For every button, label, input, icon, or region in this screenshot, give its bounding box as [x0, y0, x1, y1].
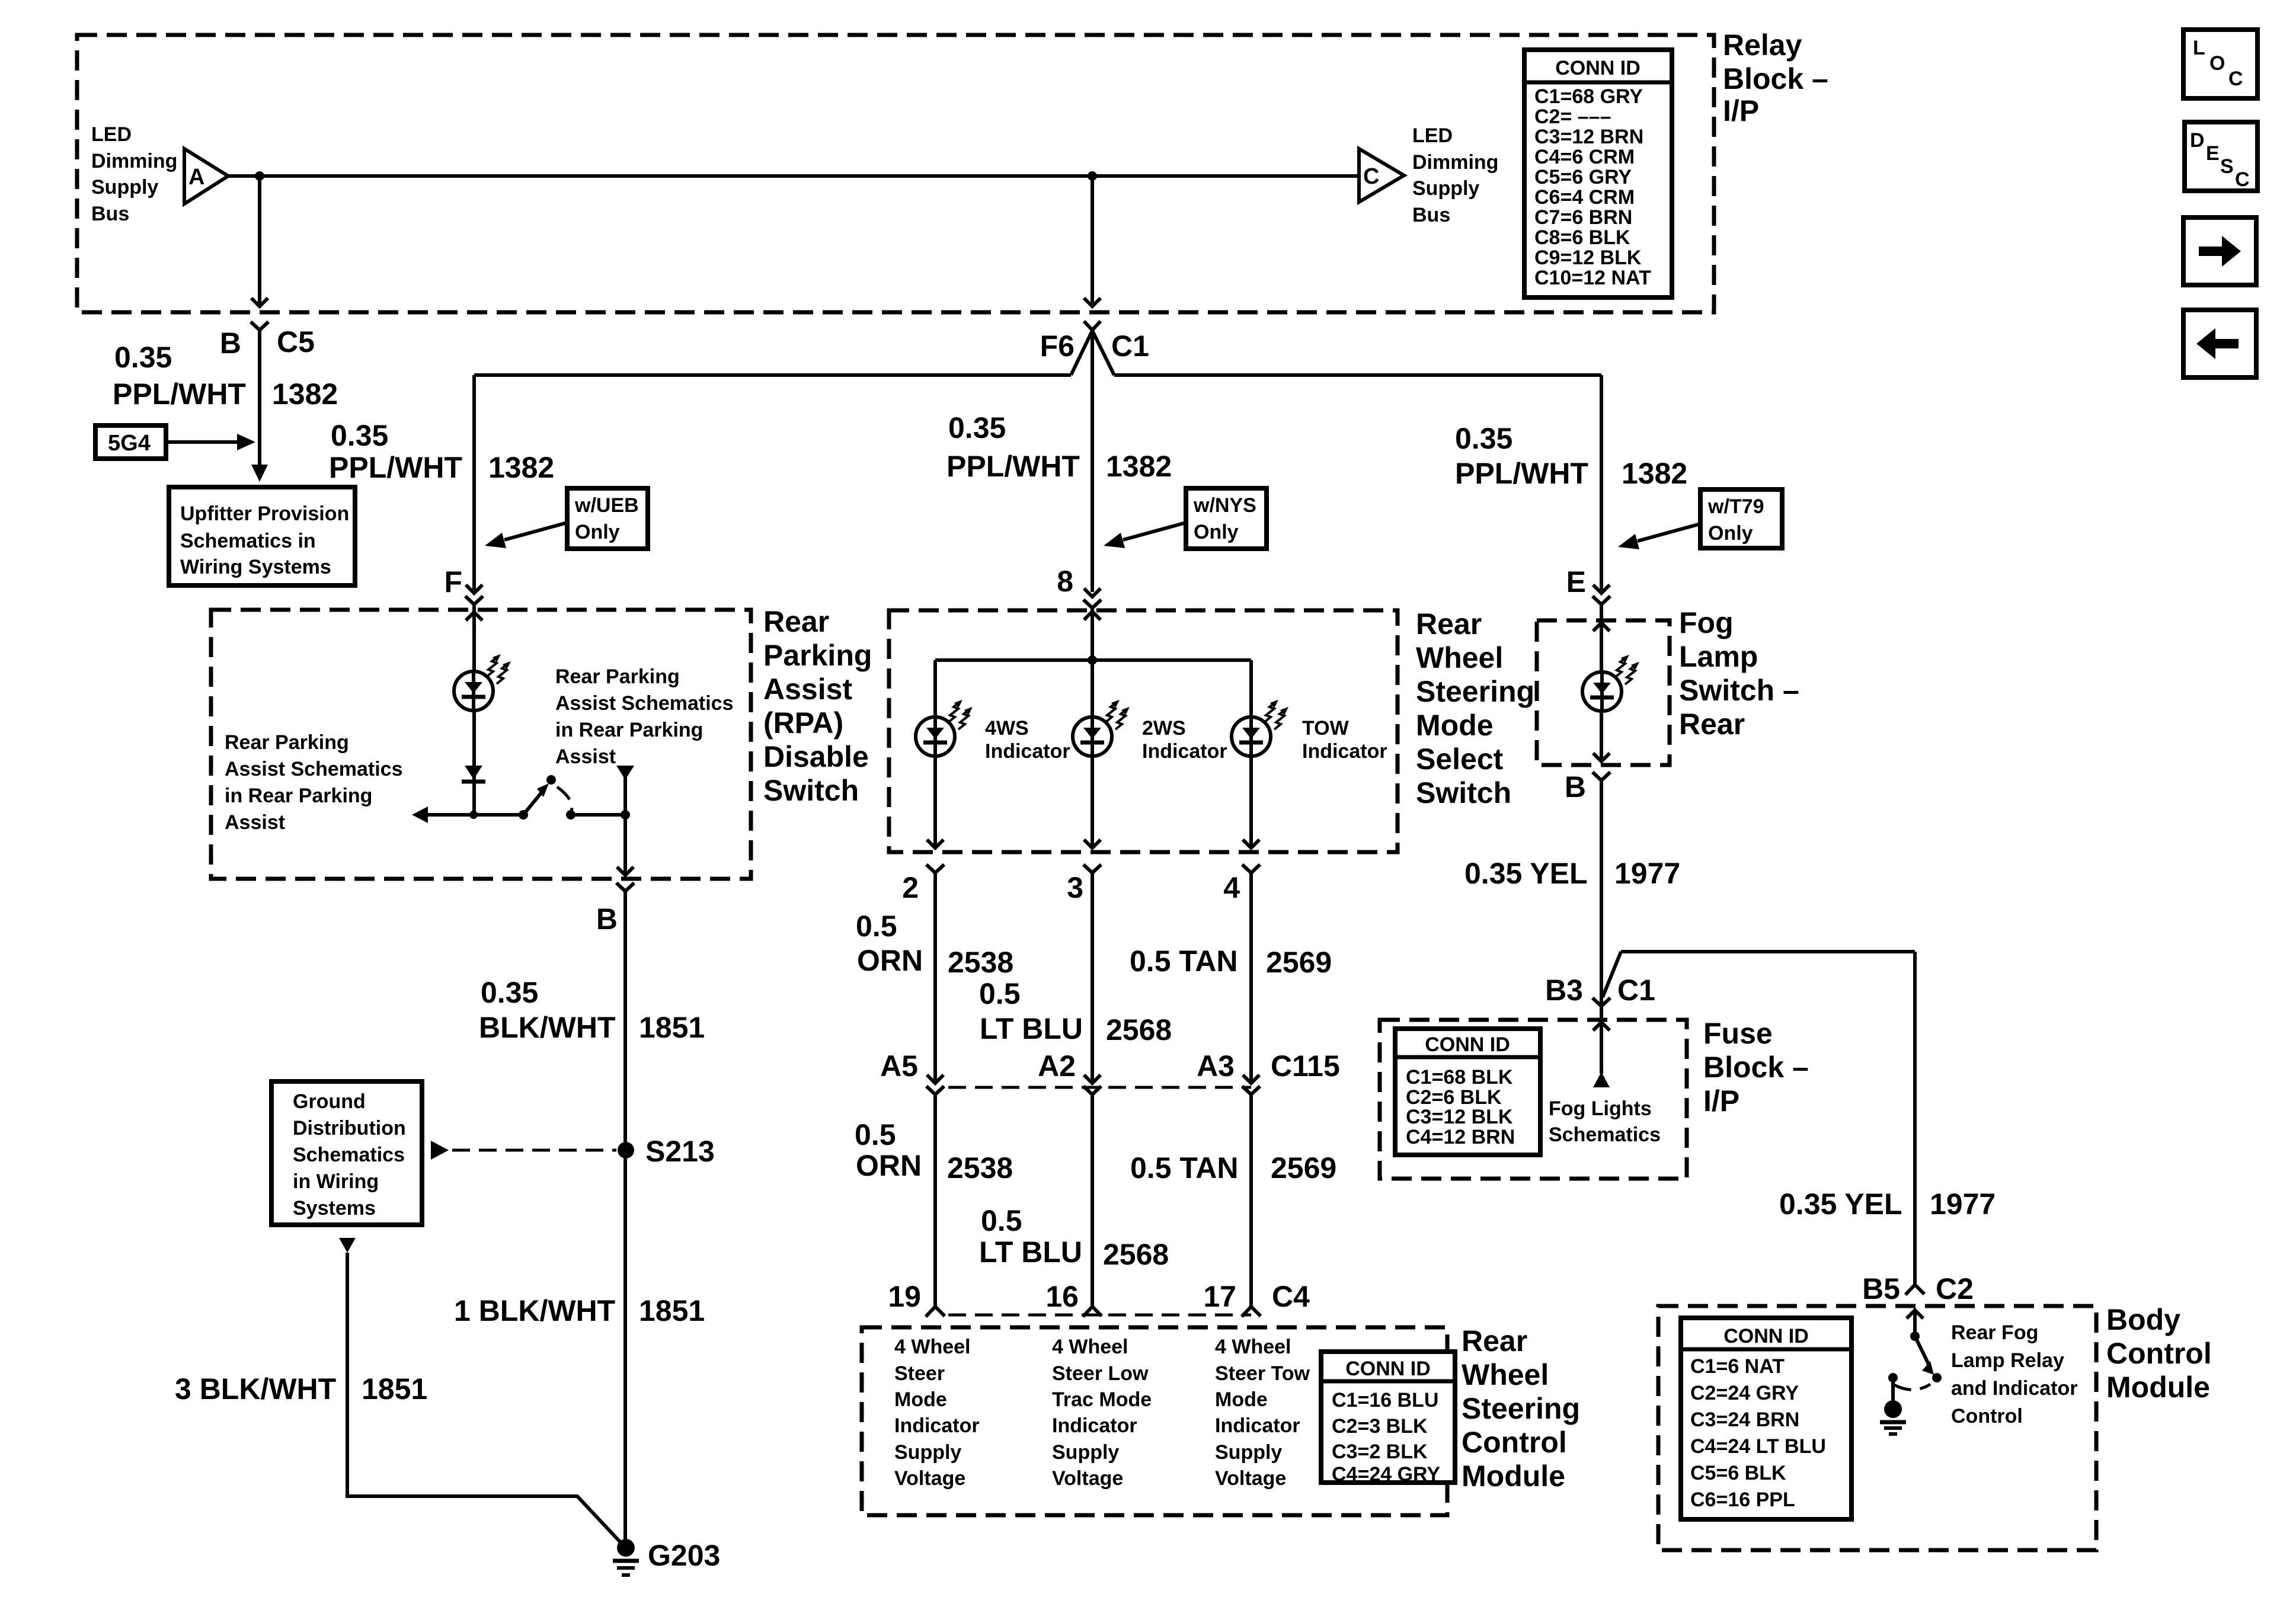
svg-text:C4=24 GRY: C4=24 GRY: [1332, 1463, 1440, 1486]
svg-text:Bus: Bus: [91, 203, 129, 225]
svg-text:G203: G203: [648, 1539, 720, 1572]
wire B down to G203: [623, 891, 627, 1541]
svg-text:Trac Mode: Trac Mode: [1052, 1388, 1152, 1411]
diode in RPA: [462, 766, 485, 782]
switch line with left arrow: [422, 813, 523, 817]
wire labels 0.5 ORN 2538 / LT BLU / TAN (upper): [856, 910, 1332, 1046]
svg-text:PPL/WHT: PPL/WHT: [1455, 457, 1588, 490]
connector row 19 16 17 C4: [888, 1280, 1310, 1317]
svg-text:C4=6 CRM: C4=6 CRM: [1534, 146, 1635, 168]
svg-text:C7=6 BRN: C7=6 BRN: [1534, 206, 1632, 229]
svg-text:C6=16 PPL: C6=16 PPL: [1690, 1489, 1795, 1511]
svg-text:LED: LED: [91, 123, 132, 146]
svg-text:C1: C1: [1617, 974, 1655, 1007]
fuse block I/P dashed box: [1380, 1020, 1687, 1179]
svg-text:Rear: Rear: [1416, 607, 1482, 641]
svg-text:1851: 1851: [639, 1294, 705, 1327]
exit arrows bottom of mode select box: [927, 840, 944, 848]
text Rear Fog Lamp Relay and Indicator Control: [1951, 1321, 2077, 1427]
svg-text:4 Wheel: 4 Wheel: [894, 1336, 970, 1358]
connector F: [465, 596, 483, 604]
wires to 19/16/17: [933, 1094, 937, 1307]
triangle connection marker in RPA: [616, 766, 634, 780]
svg-text:C115: C115: [1271, 1049, 1340, 1083]
5G4 reference box: [95, 425, 255, 459]
svg-text:Rear Parking: Rear Parking: [225, 731, 349, 754]
svg-text:19: 19: [888, 1280, 921, 1313]
svg-text:Dimming: Dimming: [91, 150, 177, 172]
svg-text:Indicator: Indicator: [1215, 1414, 1300, 1437]
svg-text:Rear: Rear: [1462, 1324, 1527, 1358]
svg-text:16: 16: [1045, 1280, 1079, 1313]
svg-text:C2=24 GRY: C2=24 GRY: [1690, 1382, 1799, 1404]
svg-text:C1=68 GRY: C1=68 GRY: [1534, 85, 1643, 108]
svg-text:Schematics: Schematics: [293, 1144, 405, 1166]
svg-text:Only: Only: [1194, 521, 1239, 543]
connector row A5 A2 A3 C115: [880, 1049, 1340, 1094]
svg-text:S: S: [2220, 155, 2234, 178]
ground in BCM: [1880, 1400, 1906, 1434]
svg-text:Rear Parking: Rear Parking: [555, 665, 680, 688]
svg-text:2569: 2569: [1271, 1151, 1336, 1185]
svg-text:0.5 TAN: 0.5 TAN: [1130, 945, 1237, 978]
svg-text:C: C: [1363, 164, 1379, 189]
entry arrow BCM: [1907, 1310, 1923, 1318]
svg-text:4 Wheel: 4 Wheel: [1052, 1336, 1128, 1358]
svg-text:L: L: [2193, 37, 2205, 59]
text Fog Lights Schematics: [1549, 1097, 1661, 1146]
svg-text:Only: Only: [1708, 522, 1753, 545]
w/T79 Only box with arrow: [1618, 489, 1782, 549]
svg-text:CONN ID: CONN ID: [1425, 1033, 1510, 1056]
label Body Control Module: [2106, 1303, 2212, 1404]
svg-text:Schematics: Schematics: [1549, 1124, 1661, 1146]
svg-text:1977: 1977: [1930, 1188, 1996, 1221]
connector B5 / C2: [1862, 1272, 1974, 1305]
svg-text:and Indicator: and Indicator: [1951, 1377, 2077, 1400]
Ground Distribution box: [271, 1081, 422, 1225]
svg-text:Rear: Rear: [763, 605, 829, 638]
svg-text:PPL/WHT: PPL/WHT: [946, 450, 1080, 483]
svg-text:3: 3: [1067, 871, 1083, 904]
svg-text:Dimming: Dimming: [1412, 151, 1498, 174]
svg-text:B: B: [220, 327, 241, 360]
svg-text:Indicator: Indicator: [894, 1414, 980, 1437]
w/UEB Only box with arrow: [485, 488, 648, 549]
entry arrow into mode select box: [1084, 612, 1101, 620]
svg-text:Steering: Steering: [1462, 1392, 1580, 1425]
rear wheel steering control module dashed box: [862, 1327, 1447, 1515]
LED 4WS indicator: [916, 700, 973, 756]
svg-text:Distribution: Distribution: [293, 1117, 406, 1140]
svg-text:5G4: 5G4: [108, 431, 151, 456]
svg-text:w/T79: w/T79: [1707, 495, 1764, 518]
svg-text:0.35: 0.35: [114, 341, 172, 374]
svg-text:Switch –: Switch –: [1679, 674, 1799, 707]
svg-text:Switch: Switch: [763, 774, 859, 807]
svg-text:B5: B5: [1862, 1272, 1900, 1305]
svg-text:Wheel: Wheel: [1416, 641, 1503, 674]
connector table CONN ID (BCM): [1681, 1318, 1851, 1519]
svg-text:4WS: 4WS: [985, 717, 1029, 740]
svg-text:F6: F6: [1040, 329, 1075, 363]
svg-text:Mode: Mode: [1416, 709, 1494, 742]
LED fog lamp switch: [1582, 655, 1639, 711]
svg-text:Upfitter Provision: Upfitter Provision: [180, 502, 349, 525]
svg-text:1977: 1977: [1614, 857, 1680, 890]
svg-text:Select: Select: [1416, 742, 1504, 776]
wire down from bus to B/C5: [258, 176, 261, 303]
svg-text:Voltage: Voltage: [1215, 1467, 1286, 1490]
text Rear Parking Assist Schematics (left): [225, 731, 403, 834]
label Fog Lamp Switch Rear: [1679, 606, 1799, 741]
svg-text:Indicator: Indicator: [1302, 740, 1387, 763]
svg-text:2538: 2538: [948, 946, 1013, 979]
svg-text:Steer Tow: Steer Tow: [1215, 1362, 1310, 1385]
svg-text:Bus: Bus: [1412, 204, 1450, 226]
svg-text:PPL/WHT: PPL/WHT: [329, 451, 462, 484]
svg-text:Body: Body: [2106, 1303, 2180, 1336]
svg-text:Schematics in: Schematics in: [180, 530, 316, 552]
svg-text:(RPA): (RPA): [763, 706, 843, 740]
connector B below RPA: [616, 883, 634, 891]
svg-text:w/UEB: w/UEB: [574, 494, 639, 517]
node: bus junction left: [255, 171, 264, 181]
svg-text:0.35 YEL: 0.35 YEL: [1464, 857, 1588, 890]
svg-text:Voltage: Voltage: [894, 1467, 965, 1490]
svg-text:Supply: Supply: [1215, 1441, 1282, 1464]
svg-text:1382: 1382: [1106, 450, 1172, 483]
svg-text:C1=6 NAT: C1=6 NAT: [1690, 1355, 1785, 1378]
svg-text:Switch: Switch: [1416, 776, 1511, 809]
svg-text:Steering: Steering: [1416, 675, 1534, 708]
LOC nav box: [2183, 30, 2257, 98]
connector table CONN ID (fuse block): [1395, 1029, 1540, 1155]
Upfitter Provision box: [169, 487, 355, 585]
svg-text:1851: 1851: [362, 1372, 427, 1406]
svg-text:CONN ID: CONN ID: [1345, 1358, 1431, 1380]
svg-text:Mode: Mode: [894, 1388, 947, 1411]
svg-text:I/P: I/P: [1703, 1084, 1739, 1118]
svg-text:TOW: TOW: [1302, 717, 1350, 740]
svg-text:Steer: Steer: [894, 1362, 945, 1385]
svg-text:Relay: Relay: [1723, 28, 1802, 62]
svg-text:4: 4: [1223, 871, 1240, 904]
switch blade RPA: [519, 775, 625, 820]
svg-text:PPL/WHT: PPL/WHT: [113, 377, 246, 411]
svg-text:Rear Fog: Rear Fog: [1951, 1321, 2038, 1344]
svg-text:1382: 1382: [488, 451, 554, 484]
svg-text:LT BLU: LT BLU: [980, 1012, 1083, 1045]
svg-text:Module: Module: [1462, 1459, 1565, 1493]
right branch wire down to E: [1600, 375, 1603, 590]
triangle connection marker (fuse block): [1593, 1072, 1610, 1087]
svg-text:C1: C1: [1111, 329, 1149, 363]
svg-text:0.5: 0.5: [856, 910, 897, 943]
svg-text:CONN ID: CONN ID: [1723, 1325, 1809, 1347]
DESC nav box: [2185, 122, 2257, 191]
label 1 BLK/WHT 1851: [454, 1294, 705, 1327]
svg-text:C: C: [2228, 68, 2243, 90]
svg-text:Lamp Relay: Lamp Relay: [1951, 1349, 2064, 1372]
node: bus junction middle: [1088, 171, 1097, 181]
wire horizontal to BCM branch: [1621, 950, 1915, 953]
svg-text:Supply: Supply: [1052, 1441, 1119, 1464]
svg-text:4 Wheel: 4 Wheel: [1215, 1336, 1291, 1358]
connector 8 above middle box: [1084, 588, 1101, 597]
svg-text:Block –: Block –: [1703, 1051, 1809, 1084]
svg-text:Assist Schematics: Assist Schematics: [225, 758, 403, 780]
connector table CONN ID (relay block): [1524, 50, 1672, 297]
svg-text:B: B: [596, 902, 618, 936]
wire 3 BLK/WHT to G203: [347, 1253, 622, 1544]
relay block I/P dashed box: [77, 35, 1714, 312]
wire down out of RPA box: [623, 776, 627, 876]
svg-text:B: B: [1565, 770, 1586, 804]
svg-text:0.35 YEL: 0.35 YEL: [1779, 1188, 1902, 1221]
svg-text:C5=6 GRY: C5=6 GRY: [1534, 166, 1632, 188]
label Rear Wheel Steering Control Module: [1462, 1324, 1580, 1493]
arrow and dashed link to S213: [431, 1141, 449, 1160]
connector B below fog box: [1593, 772, 1610, 780]
svg-text:Assist: Assist: [763, 673, 852, 706]
LED TOW indicator: [1232, 700, 1288, 756]
svg-text:A5: A5: [880, 1049, 918, 1083]
svg-text:C4=24 LT BLU: C4=24 LT BLU: [1690, 1435, 1826, 1458]
svg-text:Wheel: Wheel: [1462, 1358, 1549, 1391]
svg-text:Supply: Supply: [894, 1441, 961, 1464]
svg-text:A: A: [188, 165, 204, 190]
RPA disable switch dashed box: [211, 610, 751, 879]
svg-text:Assist: Assist: [225, 811, 285, 834]
label 0.35 PPL/WHT 1382 (left branch): [329, 419, 554, 484]
label 3 BLK/WHT 1851: [175, 1372, 427, 1406]
svg-text:Disable: Disable: [763, 740, 869, 773]
triangle marker below ground box: [339, 1238, 356, 1253]
connector F6 / C1 (X splice): [1040, 321, 1149, 375]
svg-text:C: C: [2235, 168, 2250, 191]
wire middle down to 8: [1091, 330, 1094, 592]
svg-text:2568: 2568: [1106, 1013, 1172, 1046]
svg-text:C1=68 BLK: C1=68 BLK: [1406, 1066, 1513, 1089]
svg-text:2538: 2538: [947, 1151, 1013, 1185]
svg-text:1 BLK/WHT: 1 BLK/WHT: [454, 1294, 615, 1327]
text Rear Parking Assist Schematics (right): [555, 665, 734, 768]
svg-text:BLK/WHT: BLK/WHT: [479, 1011, 616, 1044]
wire into LED: [472, 612, 476, 815]
entry arrow fuse block: [1593, 1022, 1610, 1030]
label Rear Wheel Steering Mode Select Switch: [1416, 607, 1534, 809]
svg-text:I/P: I/P: [1723, 94, 1759, 127]
svg-text:E: E: [2206, 142, 2220, 165]
svg-text:Indicator: Indicator: [1052, 1414, 1137, 1437]
control module pin labels: [894, 1336, 980, 1490]
svg-text:Supply: Supply: [91, 176, 158, 199]
svg-text:in Rear Parking: in Rear Parking: [555, 719, 703, 741]
svg-text:Block –: Block –: [1723, 62, 1828, 95]
wire left branch horizontal: [474, 373, 1071, 377]
svg-text:Fog Lights: Fog Lights: [1549, 1097, 1652, 1120]
svg-text:Indicator: Indicator: [985, 740, 1070, 763]
label 0.35 PPL/WHT 1382 (right branch): [1455, 422, 1687, 490]
svg-text:Fog: Fog: [1679, 606, 1734, 639]
svg-text:A3: A3: [1197, 1049, 1235, 1083]
svg-text:0.35: 0.35: [1455, 422, 1512, 455]
svg-text:2WS: 2WS: [1142, 717, 1186, 740]
node: distribution junction: [1088, 655, 1097, 665]
svg-text:C6=4 CRM: C6=4 CRM: [1534, 186, 1635, 209]
svg-text:C3=12 BLK: C3=12 BLK: [1406, 1106, 1513, 1128]
svg-text:Rear: Rear: [1679, 708, 1745, 741]
svg-text:A2: A2: [1038, 1049, 1076, 1083]
svg-text:Assist: Assist: [555, 745, 616, 768]
LED indicator (RPA): [454, 654, 511, 710]
label Fuse Block - I/P: [1703, 1017, 1809, 1118]
svg-text:Only: Only: [575, 521, 620, 543]
right arrow nav box: [2183, 217, 2256, 285]
connector B / C5: [251, 322, 268, 330]
svg-text:in Rear Parking: in Rear Parking: [225, 785, 372, 807]
svg-text:C4=12 BRN: C4=12 BRN: [1406, 1126, 1515, 1148]
connector B3 / C1 (X splice): [1545, 952, 1655, 1020]
svg-text:ORN: ORN: [856, 1149, 922, 1182]
wire distribution horizontal: [935, 658, 1251, 662]
label Relay Block - I/P: [1723, 28, 1828, 127]
svg-text:C2= –––: C2= –––: [1534, 105, 1611, 128]
label 0.35 PPL/WHT 1382: [113, 341, 338, 411]
svg-text:D: D: [2190, 129, 2205, 152]
svg-text:2: 2: [902, 871, 919, 904]
wires to A5/A2/A3: [933, 873, 937, 1080]
svg-text:Systems: Systems: [293, 1197, 376, 1219]
svg-text:w/NYS: w/NYS: [1193, 494, 1256, 517]
left branch wire down to F: [472, 375, 476, 590]
svg-text:Control: Control: [1462, 1426, 1567, 1459]
svg-text:17: 17: [1203, 1280, 1236, 1313]
svg-text:0.5: 0.5: [981, 1204, 1022, 1237]
relay switch in BCM: [1888, 1331, 1942, 1401]
svg-text:C2: C2: [1936, 1272, 1974, 1305]
svg-text:2569: 2569: [1266, 946, 1332, 979]
svg-text:C5=6 BLK: C5=6 BLK: [1690, 1462, 1786, 1484]
svg-text:0.5 TAN: 0.5 TAN: [1130, 1151, 1238, 1185]
entry arrow fog box: [1593, 623, 1610, 631]
svg-text:Module: Module: [2106, 1371, 2210, 1404]
rear wheel steering mode select switch dashed box: [889, 610, 1398, 852]
wire: LED dimming supply bus: [228, 174, 1359, 178]
svg-text:Parking: Parking: [763, 639, 872, 672]
svg-text:C2=3 BLK: C2=3 BLK: [1332, 1415, 1428, 1438]
svg-text:Assist Schematics: Assist Schematics: [555, 692, 734, 715]
connector table CONN ID (control module): [1321, 1352, 1455, 1486]
label Rear Parking Assist (RPA) Disable Switch: [763, 605, 872, 807]
svg-text:Supply: Supply: [1412, 177, 1479, 200]
label LED Dimming Supply Bus (left): [91, 123, 177, 225]
svg-text:Control: Control: [1951, 1405, 2023, 1427]
connector E: [1593, 596, 1610, 604]
svg-text:1382: 1382: [1622, 457, 1687, 490]
svg-text:0.35: 0.35: [481, 976, 538, 1009]
label 0.35 PPL/WHT 1382 (middle): [946, 411, 1172, 483]
wire right branch horizontal: [1114, 373, 1601, 377]
label LED Dimming Supply Bus (right): [1412, 124, 1498, 226]
left arrow nav box: [2183, 310, 2256, 377]
svg-text:F: F: [444, 565, 462, 598]
w/NYS Only box with arrow: [1104, 488, 1267, 549]
svg-text:Lamp: Lamp: [1679, 640, 1758, 673]
svg-text:0.5: 0.5: [855, 1118, 896, 1151]
svg-text:Ground: Ground: [293, 1090, 366, 1113]
svg-text:B3: B3: [1545, 974, 1583, 1007]
svg-text:3 BLK/WHT: 3 BLK/WHT: [175, 1372, 336, 1406]
svg-text:2568: 2568: [1103, 1238, 1169, 1271]
svg-text:LT BLU: LT BLU: [979, 1235, 1082, 1269]
svg-text:Mode: Mode: [1215, 1388, 1268, 1411]
svg-text:E: E: [1566, 565, 1586, 598]
svg-text:LED: LED: [1412, 124, 1453, 147]
svg-text:C4: C4: [1272, 1280, 1310, 1313]
svg-text:8: 8: [1057, 565, 1073, 598]
wire down to B3/C1: [1600, 780, 1603, 1004]
svg-text:S213: S213: [645, 1135, 715, 1168]
LED 2WS indicator: [1073, 700, 1130, 756]
svg-text:ORN: ORN: [857, 944, 923, 977]
svg-text:C10=12 NAT: C10=12 NAT: [1534, 267, 1651, 289]
labels 4WS/2WS/TOW indicator: [985, 717, 1387, 763]
wire columns: [933, 660, 937, 846]
svg-text:Steer Low: Steer Low: [1052, 1362, 1149, 1385]
label 0.35 BLK/WHT 1851: [479, 976, 705, 1044]
svg-text:C9=12 BLK: C9=12 BLK: [1534, 247, 1642, 269]
svg-text:Indicator: Indicator: [1142, 740, 1227, 763]
wire labels 0.5 ORN 2538 / LT BLU / TAN (lower): [855, 1118, 1336, 1271]
svg-text:C1=16 BLU: C1=16 BLU: [1332, 1389, 1438, 1411]
svg-text:1382: 1382: [272, 377, 338, 411]
svg-text:O: O: [2209, 52, 2225, 75]
exit arrow fog box: [1593, 753, 1610, 761]
svg-text:0.35: 0.35: [948, 411, 1006, 444]
entry arrow into RPA box: [466, 612, 482, 620]
svg-text:1851: 1851: [639, 1011, 705, 1044]
svg-text:C3=2 BLK: C3=2 BLK: [1332, 1441, 1428, 1463]
svg-text:C5: C5: [277, 325, 315, 359]
svg-text:C3=12 BRN: C3=12 BRN: [1534, 126, 1643, 148]
label 0.35 YEL 1977 (right): [1779, 1188, 1996, 1221]
label 0.35 YEL 1977: [1464, 857, 1680, 890]
svg-text:Wiring Systems: Wiring Systems: [180, 556, 331, 578]
wire down from bus to F6/C1: [1091, 176, 1094, 303]
svg-text:in Wiring: in Wiring: [293, 1170, 379, 1193]
splice S213: [618, 1142, 634, 1158]
svg-text:Control: Control: [2106, 1337, 2212, 1370]
svg-text:Fuse: Fuse: [1703, 1017, 1773, 1050]
svg-text:CONN ID: CONN ID: [1555, 57, 1641, 79]
buffer triangle C: [1359, 149, 1404, 202]
svg-text:C8=6 BLK: C8=6 BLK: [1534, 226, 1630, 249]
ground G203: [613, 1539, 720, 1575]
svg-text:Voltage: Voltage: [1052, 1467, 1123, 1490]
connectors 2 3 4: [902, 865, 1260, 904]
fog lamp switch rear dashed box: [1537, 620, 1670, 765]
wire 1382 to upfitter: [258, 330, 261, 468]
buffer triangle A: [184, 149, 228, 204]
svg-text:0.35: 0.35: [331, 419, 388, 452]
body control module dashed box: [1658, 1306, 2096, 1550]
svg-text:0.5: 0.5: [979, 977, 1021, 1010]
svg-text:C3=24 BRN: C3=24 BRN: [1690, 1409, 1799, 1431]
